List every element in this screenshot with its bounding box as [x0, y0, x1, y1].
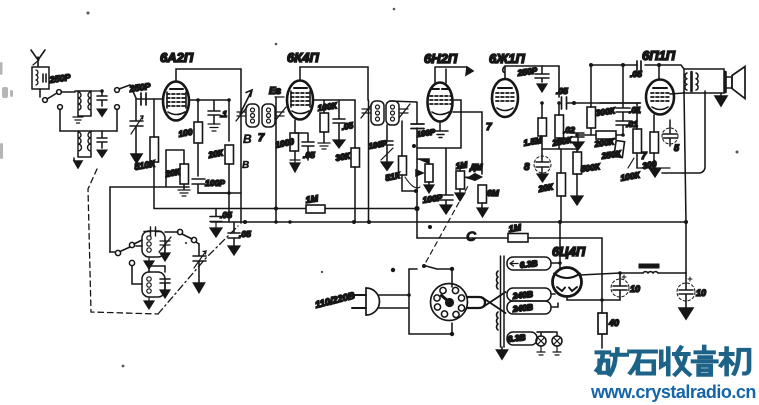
ground 6Н2П cathode	[433, 122, 448, 138]
tube 6Н2П	[428, 83, 453, 122]
wire 6Ж1П plate	[503, 66, 559, 97]
wire IFT1 right down	[275, 97, 277, 222]
resistor 1000 cathode	[290, 120, 299, 160]
resistor 100К screen	[320, 100, 329, 143]
label 100К arrow	[620, 158, 642, 183]
IFT2 coil left	[371, 101, 384, 125]
cap .02	[572, 133, 584, 150]
ground osc MW	[144, 257, 154, 269]
ground cap 10 b	[679, 308, 693, 319]
voltage selector	[431, 284, 468, 321]
cap 100Р osc	[192, 179, 241, 193]
label Ег	[269, 86, 284, 97]
volume pot	[416, 159, 433, 185]
ground 1М det	[455, 193, 465, 201]
wire 6Н2П anodes top	[435, 67, 467, 83]
wire heater line	[567, 296, 620, 300]
IFT2 coil right	[386, 101, 399, 125]
IFT2 trimmer right	[399, 104, 410, 118]
wire speaker return	[683, 91, 705, 173]
resistor 30К	[351, 100, 360, 222]
coupling cap 250Р	[141, 93, 146, 105]
wire screen row	[313, 99, 355, 101]
ground 100Р af	[440, 205, 452, 214]
cap ant LW	[97, 131, 107, 158]
resistor 40	[598, 299, 607, 348]
trimmer cap osc MW	[144, 227, 162, 236]
winding 6.3В top	[507, 257, 551, 270]
arrow bus end	[466, 67, 473, 75]
char 石	[629, 352, 655, 374]
ground 6К4П cathode	[290, 160, 300, 172]
switch S1b right	[115, 85, 136, 98]
watermark CJK 矿石收音机	[597, 347, 749, 375]
resistor 1М det	[456, 166, 465, 193]
IFT1 trimmer right	[275, 107, 286, 121]
resistor 300К	[587, 65, 596, 135]
cap 5 cathode	[662, 120, 678, 146]
resistor 300 cathode	[650, 115, 659, 168]
resistor 20К out	[557, 149, 566, 222]
wire af line	[417, 238, 602, 299]
ground 6П1П cathode	[637, 168, 670, 177]
cap 10 a	[611, 273, 629, 300]
ground pot	[424, 185, 434, 193]
cap .05 cathode	[295, 133, 314, 160]
resistor 100	[194, 100, 203, 143]
wire winding to rect	[551, 263, 560, 307]
cap 10 b	[677, 272, 695, 308]
wire plug to selector	[379, 269, 452, 334]
switch lower contacts	[58, 105, 120, 131]
wire plate drop	[453, 112, 482, 174]
wire 6А2П plate to top bus	[176, 69, 241, 81]
transformer primary	[497, 271, 498, 330]
tube 6Ц4П	[553, 268, 582, 297]
resistor 100К grid leak	[600, 103, 642, 168]
wire IFT2 down to bus	[368, 100, 370, 222]
wire 6А2П anode right	[189, 99, 228, 101]
bus elbow 417	[416, 209, 418, 239]
filter choke	[620, 264, 686, 273]
wire top bus down to IFT1	[240, 69, 242, 223]
resistor 200К horizontal	[596, 131, 616, 139]
var cap osc MW	[159, 237, 171, 261]
resistor 250К slant	[614, 141, 625, 158]
wire B+ right column	[684, 91, 686, 273]
resistor 6М	[478, 185, 487, 208]
wire 6К4П top cap	[300, 67, 368, 100]
bus B y222	[211, 221, 686, 223]
resistor 510К	[150, 99, 159, 208]
ground 20К g1	[178, 190, 190, 196]
wire cathode return	[662, 172, 683, 174]
wire osc switch feed	[109, 251, 111, 253]
ant transformer LW	[60, 131, 117, 157]
cap .1 with ground	[208, 100, 220, 131]
wire 300К row	[577, 134, 623, 136]
pilot lamp 1	[536, 332, 553, 355]
wire 6Н2П column	[390, 101, 417, 209]
cap .05 bus b	[228, 222, 240, 255]
curve link pot	[405, 177, 420, 188]
ant transformer MW	[75, 91, 91, 116]
antenna	[31, 50, 45, 66]
IFT2 trimmer left	[361, 104, 372, 118]
wire box right	[417, 100, 461, 148]
speck dot	[391, 268, 395, 272]
winding 240В a	[507, 288, 551, 301]
char 音	[693, 347, 716, 375]
wire cath row	[542, 148, 578, 150]
cap .05 screen	[333, 100, 345, 148]
wire 6П1П top stem	[658, 65, 660, 80]
transformer core	[501, 256, 505, 347]
cap .05 6п1п	[637, 61, 641, 70]
wire 100 to cap 100Р	[197, 143, 199, 176]
ground ant LW	[74, 158, 82, 168]
switch S1a	[43, 90, 75, 103]
tuning cap C1b	[193, 244, 206, 293]
tuning cap C1a	[130, 99, 143, 163]
cap 8 electrolytic	[534, 156, 551, 182]
dashed link	[426, 186, 468, 262]
grid wire top	[591, 65, 684, 69]
tube 6П1П	[646, 80, 674, 115]
antenna coil 250Р	[32, 67, 49, 97]
plug	[352, 288, 380, 315]
dashed enclosure	[88, 169, 238, 314]
cap 100Р af	[439, 149, 453, 205]
winding 6.3В bottom	[507, 332, 537, 345]
wire 191 row	[198, 192, 229, 194]
bus AGC y209	[154, 208, 417, 210]
winding 240В b	[507, 301, 551, 314]
char 收	[661, 347, 689, 374]
osc coil MW	[136, 231, 165, 257]
ground transformer	[497, 347, 508, 359]
cap 100Р grid	[411, 124, 424, 129]
IFT1 coil left	[246, 104, 259, 127]
power switch	[409, 264, 452, 287]
wire lamps	[537, 332, 557, 336]
cap .05 coupling	[562, 97, 641, 109]
ground 500К	[571, 196, 583, 205]
coupling arrows ДМ	[464, 174, 482, 181]
pilot lamp 2	[552, 336, 562, 355]
ground 6М	[477, 208, 488, 217]
switch osc right	[165, 229, 199, 244]
resistor 51К	[399, 121, 417, 191]
resistor 500К	[573, 149, 582, 196]
resistor 1М agc	[306, 205, 325, 213]
selector cross wires	[468, 292, 506, 313]
char 机	[721, 348, 749, 374]
char 矿	[597, 349, 627, 374]
resistor 1М af	[508, 234, 528, 243]
ground speaker	[715, 93, 727, 106]
cap 250Р plate	[535, 66, 549, 92]
cap ant MW	[91, 89, 107, 116]
cap .05 bus a	[210, 209, 222, 238]
ground 100К	[318, 143, 330, 149]
cap 100Р ift2	[381, 125, 393, 171]
resistor 20К g2	[225, 100, 234, 222]
IFT1 coil right	[262, 104, 275, 127]
trimmer arrow IFT1	[240, 90, 252, 114]
wire grid line	[136, 98, 162, 100]
ground ant MW	[73, 117, 83, 123]
ground osc LW	[144, 297, 154, 309]
resistor 20К g1	[166, 150, 189, 189]
svg-text:www.crystalradio.cn: www.crystalradio.cn	[590, 382, 756, 402]
wire bus to rect top	[559, 222, 561, 269]
resistor 1.5М	[538, 103, 547, 158]
speaker	[726, 67, 746, 99]
tube 6Ж1П	[492, 79, 518, 117]
resistor 250К g	[555, 103, 564, 149]
tube 6К4П	[287, 81, 313, 120]
cap osc LW	[160, 279, 170, 298]
tube 6А2П	[163, 82, 189, 121]
IFT1 trimmer left	[236, 107, 247, 121]
wire osc grid elbow	[110, 150, 189, 252]
osc coil LW	[132, 266, 165, 297]
wire rect to choke	[580, 273, 620, 275]
switch osc left	[110, 240, 142, 266]
output transformer	[670, 69, 724, 94]
caps .01 x2	[616, 65, 630, 135]
